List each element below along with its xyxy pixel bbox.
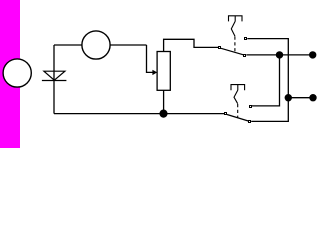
wire R1 top to switch S1 pole: [164, 39, 219, 51]
palette bar (magenta): [0, 0, 20, 148]
switch S2 pole contact: [224, 112, 227, 115]
switch S2 lower throw contact: [248, 120, 251, 123]
wire wiper drop: [147, 45, 154, 72]
potentiometer R1 body: [157, 52, 170, 91]
switch S2 upper throw contact: [249, 105, 252, 108]
node C junction dot: [285, 94, 292, 101]
node A junction dot: [276, 51, 283, 58]
switch S2 actuator link (dashed): [237, 104, 239, 118]
wire bottom rail: [54, 113, 224, 115]
wiper arrowhead: [152, 70, 157, 75]
switch S1 upper throw contact: [244, 37, 247, 40]
switch S1 lower throw contact: [243, 54, 246, 57]
wire left vertical: [53, 45, 55, 114]
switch S1 pole contact: [218, 46, 221, 49]
switch S2 actuator spring: [234, 90, 238, 104]
switch S1 actuator cap: [229, 16, 243, 22]
switch S2 lever: [227, 115, 248, 122]
switch S2 actuator cap: [231, 85, 245, 91]
junction dot at R1 bottom: [159, 110, 167, 118]
terminal B dot: [309, 51, 316, 58]
wire node C to terminal D: [288, 97, 313, 99]
meter M1 (circle): [82, 31, 110, 59]
wire S1 upper throw to node C vertical: [247, 39, 288, 98]
wire S1 lower throw to terminal B: [246, 54, 312, 56]
palette component circle: [3, 59, 31, 87]
wire top rail: [54, 44, 147, 46]
wire R1 bottom: [163, 90, 165, 113]
wire node C down to S2 lower throw: [251, 98, 288, 122]
wire node A down to S2 upper throw: [252, 55, 280, 106]
diode D1: [42, 71, 67, 80]
terminal D dot: [309, 94, 316, 101]
switch S1 lever: [221, 48, 243, 55]
switch S1 actuator link (dashed): [234, 37, 236, 53]
switch S1 actuator spring: [231, 21, 235, 36]
